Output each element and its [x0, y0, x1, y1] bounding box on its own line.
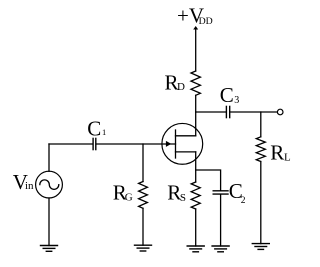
wire transistor source down	[195, 152, 197, 182]
wire RD to drain node	[195, 95, 197, 112]
label Vin	[13, 170, 34, 194]
svg-text:G: G	[125, 192, 133, 204]
label RS	[167, 180, 186, 204]
wire C3 to output terminal	[230, 111, 277, 113]
wire drain node to C3	[196, 111, 226, 113]
resistor RD	[191, 71, 200, 95]
wire C2 to ground	[220, 195, 222, 246]
svg-text:S: S	[180, 192, 186, 204]
ground under C2	[212, 246, 229, 252]
svg-text:C: C	[220, 83, 234, 107]
label RD	[165, 71, 186, 95]
wire output node to RL	[260, 112, 262, 137]
resistor RS	[191, 182, 200, 209]
wire gate node to RG	[142, 144, 144, 182]
ground under Vin	[41, 246, 58, 252]
wire VDD to RD	[195, 29, 197, 72]
capacitor C3	[226, 106, 229, 117]
svg-text:L: L	[284, 151, 291, 163]
ground under RS	[187, 246, 204, 252]
transistor Q1 (JFET in circle)	[162, 123, 203, 164]
wire Vin to ground	[48, 198, 50, 246]
VDD arrowhead	[193, 26, 198, 30]
wire corner down to Vin source	[48, 144, 50, 171]
svg-text:R: R	[270, 141, 284, 165]
source Vin (circle with sine)	[36, 171, 63, 198]
wire source node to C2 branch	[196, 170, 221, 190]
output terminal	[277, 109, 283, 115]
capacitor C1	[93, 138, 96, 149]
svg-text:D: D	[177, 81, 185, 93]
svg-text:DD: DD	[199, 16, 213, 27]
svg-text:C: C	[87, 116, 101, 140]
label C1	[87, 116, 106, 140]
svg-text:3: 3	[234, 95, 239, 106]
label C3	[220, 83, 239, 107]
label RL	[270, 141, 291, 165]
svg-text:1: 1	[102, 127, 106, 137]
wire C1 to Vin corner	[49, 143, 92, 145]
label RG	[113, 181, 133, 205]
resistor RL	[256, 137, 265, 162]
wire RG to ground	[142, 208, 144, 245]
wire RL to ground	[260, 162, 262, 244]
ground under RG	[135, 245, 152, 251]
svg-text:2: 2	[241, 196, 246, 206]
gate arrowhead	[166, 141, 171, 147]
wire drain node to transistor drain	[195, 112, 197, 136]
ground under RL	[252, 244, 269, 250]
wire RS to ground	[195, 209, 197, 246]
wire gate	[96, 143, 175, 145]
capacitor C2	[213, 191, 228, 194]
resistor RG	[139, 182, 148, 209]
label C2	[229, 179, 246, 206]
label +VDD	[177, 4, 213, 28]
svg-text:in: in	[25, 180, 34, 192]
